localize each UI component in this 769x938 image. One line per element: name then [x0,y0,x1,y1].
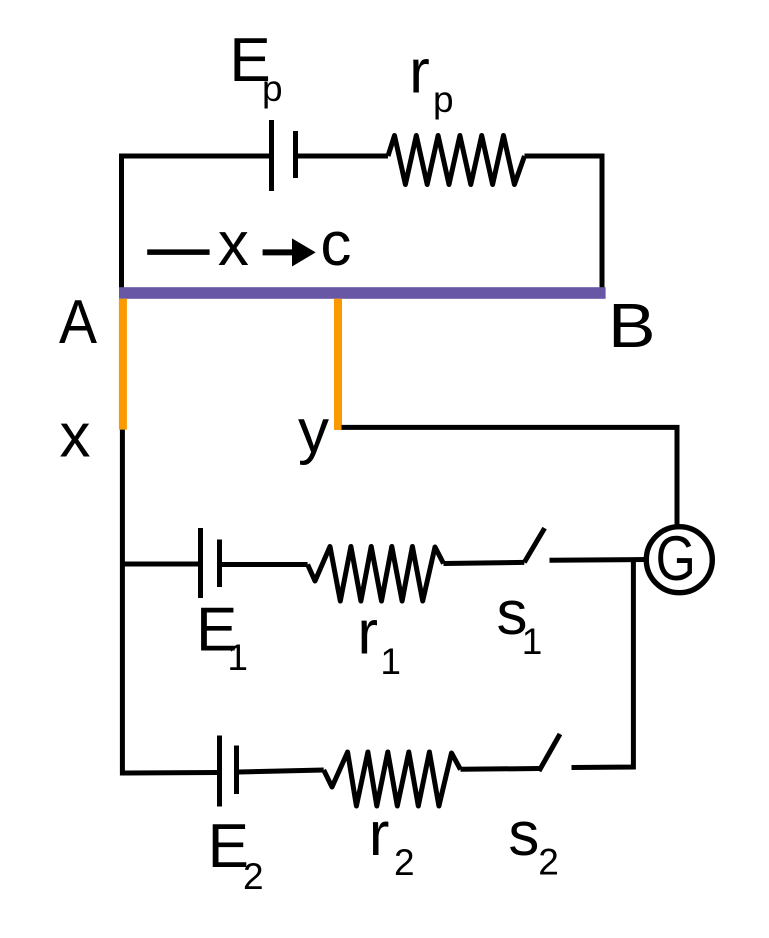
svg-text:G: G [656,524,696,594]
wire: top-left corner (left vertical + top horizontal to battery Ep) [122,156,270,288]
jockey tap wire at y (orange) [334,299,342,430]
label s_1 [497,579,543,662]
svg-text:p: p [433,79,454,120]
wire: branch 2 left segment to battery E2 [120,770,218,776]
wire: battery E1 to resistor r1 [222,562,308,567]
battery E1 [201,528,220,598]
wire: battery Ep to resistor rp [298,154,388,159]
tap wire at x (orange) [119,299,127,430]
svg-text:1: 1 [227,637,248,678]
switch S2 blade [539,734,560,771]
label s_2 [508,800,558,882]
svg-text:2: 2 [538,841,559,882]
svg-text:2: 2 [394,842,415,883]
wire: branch 1 left segment to battery E1 [120,562,199,567]
svg-text:r: r [357,599,378,668]
svg-text:x: x [218,210,249,279]
svg-text:A: A [59,287,97,357]
annotation arrow to c [263,238,316,266]
battery Ep [272,120,296,191]
svg-text:c: c [320,210,351,279]
wire: left vertical from x down to branch 2 [120,430,125,776]
label r_p [409,37,453,120]
wire: battery E2 to resistor r2 [239,770,324,772]
wire: resistor r2 to switch S2 [461,766,540,772]
annotation: current direction line [147,249,209,255]
wire: switch S1 to galvanometer [550,557,647,563]
wire: resistor r1 to switch S1 [444,562,525,563]
svg-text:y: y [298,397,329,466]
svg-text:x: x [60,402,91,471]
resistor r1 [308,547,444,602]
svg-text:s: s [508,800,539,869]
svg-text:1: 1 [380,641,401,682]
resistor rp [388,136,525,185]
wire: resistor rp to top-right corner, down to bar at B [525,156,603,288]
potentiometer wire AB (purple bar) [119,287,606,299]
svg-text:1: 1 [522,621,543,662]
svg-text:2: 2 [243,856,264,897]
galvanometer G [646,524,712,594]
label r_2 [369,800,415,883]
svg-text:r: r [369,800,390,869]
switch S1 blade [524,528,544,562]
label E_1 [196,595,248,678]
wire: jockey y to galvanometer (horizontal + down to G) [342,427,678,527]
svg-text:p: p [262,68,283,109]
svg-text:r: r [409,37,430,106]
label E_p [229,26,282,109]
label E_2 [208,812,264,897]
resistor r2 [324,752,461,806]
battery E2 [220,736,237,807]
svg-text:B: B [608,292,656,361]
junction wire: branch1 down to branch2 right end [572,560,634,768]
label r_1 [357,599,401,682]
